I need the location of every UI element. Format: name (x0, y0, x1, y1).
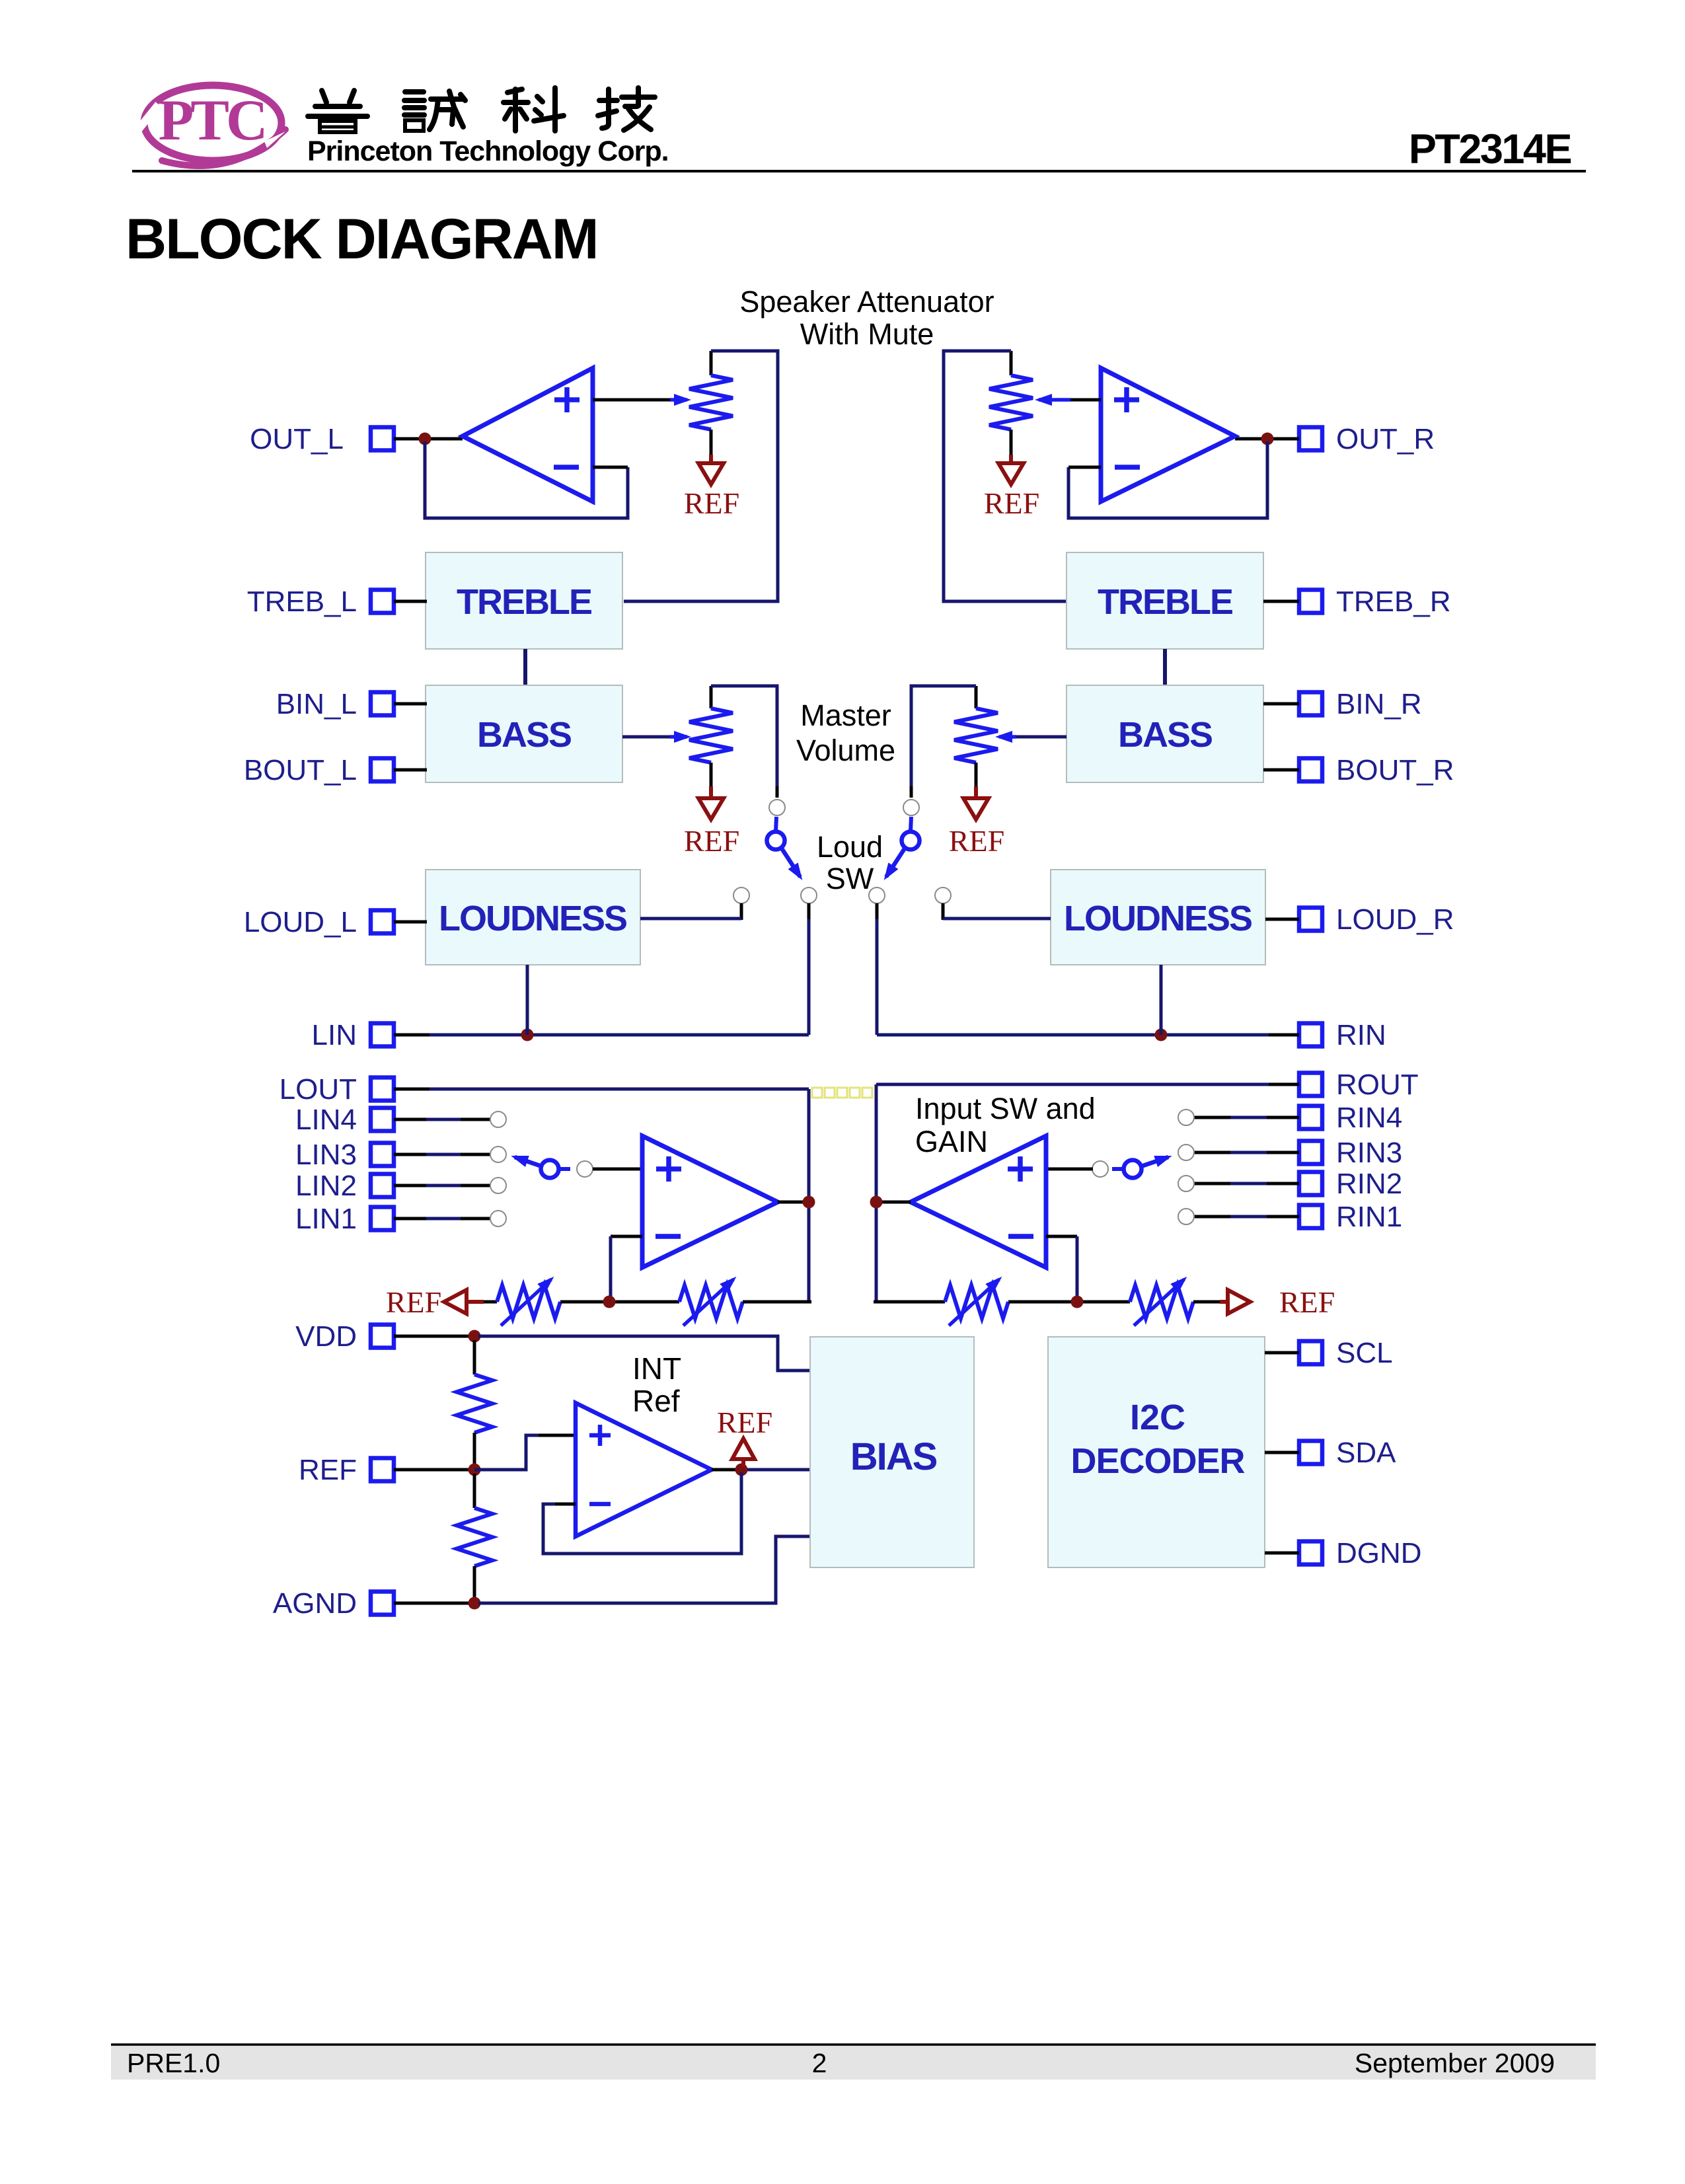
wire LOUDNESS L output to switch contact (740, 903, 743, 920)
svg-text:I2C: I2C (1130, 1398, 1185, 1437)
footer bar (111, 2045, 1596, 2080)
svg-text:REF: REF (949, 824, 1004, 858)
input selector left common contact (577, 1161, 593, 1177)
svg-text:LIN2: LIN2 (295, 1170, 357, 1202)
svg-text:REF: REF (1279, 1285, 1335, 1319)
wire LIN3 to selector contact (394, 1153, 426, 1156)
selector contact LIN3 (490, 1147, 506, 1162)
svg-text:2: 2 (812, 2048, 827, 2078)
REF symbol below P2 (1009, 455, 1013, 463)
wire R3 to feedback node (560, 1300, 679, 1304)
wire LOUD_R stub (1265, 918, 1299, 921)
svg-text:REF: REF (717, 1406, 772, 1439)
potentiometer P4 master volume right (975, 686, 978, 708)
wire RIN bus (1269, 1034, 1299, 1037)
wire U5 feedback loop (543, 1472, 741, 1554)
loud switch right pivot (911, 817, 911, 831)
wire TREB_L stub (394, 600, 427, 603)
chinese char 3 (ke) (504, 88, 564, 131)
wire op-amp U2 to OUT_R (1235, 437, 1299, 441)
svg-text:TREBLE: TREBLE (1098, 582, 1232, 622)
wire RIN4 to selector contact (1267, 1116, 1299, 1119)
variable resistor R5 (945, 1285, 1008, 1318)
wire REF node (394, 1468, 482, 1472)
svg-text:RIN4: RIN4 (1336, 1102, 1402, 1134)
resistor R7 (473, 1340, 476, 1374)
svg-text:LOUD_R: LOUD_R (1336, 903, 1454, 936)
wire OUT_L to op-amp U1 (394, 437, 463, 441)
junction REF node (468, 1464, 481, 1476)
input selector left pivot (541, 1160, 559, 1178)
input selector right common contact (1092, 1161, 1108, 1177)
svg-text:BOUT_L: BOUT_L (244, 754, 357, 786)
svg-text:LOUT: LOUT (280, 1073, 357, 1106)
op-amp U2 speaker attenuator right (1101, 368, 1235, 502)
wire TREBLE to BASS left (523, 649, 527, 685)
svg-text:RIN2: RIN2 (1336, 1168, 1402, 1200)
wire to variable resistor R3 (484, 1300, 497, 1304)
svg-text:REF: REF (386, 1285, 441, 1319)
svg-text:RIN3: RIN3 (1336, 1137, 1402, 1169)
svg-text:BOUT_R: BOUT_R (1336, 754, 1454, 786)
svg-text:BIN_R: BIN_R (1336, 688, 1422, 720)
svg-text:DGND: DGND (1336, 1537, 1422, 1569)
svg-text:With Mute: With Mute (800, 317, 934, 351)
junction AGND node (468, 1597, 481, 1610)
block LOUDNESS right (1051, 870, 1265, 965)
svg-text:OUT_R: OUT_R (1336, 423, 1435, 455)
variable resistor R4 (679, 1285, 743, 1318)
junction node OUT_R (1261, 433, 1274, 445)
svg-text:Master: Master (800, 698, 891, 732)
junction right feedback node (1071, 1296, 1084, 1308)
block BIAS (810, 1337, 974, 1567)
watermark (812, 1088, 872, 1098)
op-amp U5 INT ref (576, 1403, 712, 1536)
wire AGND rail (394, 1602, 482, 1605)
svg-text:LOUD_L: LOUD_L (244, 906, 357, 938)
junction node OUT_L (419, 433, 431, 445)
potentiometer P1 speaker left (710, 351, 713, 375)
block BASS right (1067, 685, 1263, 782)
wire SCL stub (1265, 1351, 1299, 1355)
REF symbol at U5 output (741, 1459, 745, 1467)
block TREBLE left (426, 552, 622, 649)
op-amp U4 input gain right (911, 1136, 1046, 1267)
header rule (132, 170, 1586, 172)
selector contact RIN2 (1178, 1176, 1194, 1191)
wire U2 feedback loop (1068, 441, 1267, 518)
wire SDA stub (1265, 1451, 1299, 1454)
wire LOUD_L stub (394, 921, 427, 924)
selector contact RIN4 (1178, 1110, 1194, 1125)
svg-text:VDD: VDD (295, 1320, 357, 1353)
wire U1 noninverting input to pot P1 wiper (593, 398, 670, 402)
junction VDD node (468, 1330, 481, 1343)
svg-text:BASS: BASS (477, 715, 571, 755)
wire BOUT_R stub (1263, 769, 1299, 772)
wire VDD to BIAS (478, 1336, 810, 1371)
svg-text:Input SW and: Input SW and (915, 1092, 1096, 1125)
wire switch contact RIN drop (876, 903, 879, 921)
svg-text:PTC: PTC (159, 89, 265, 153)
svg-text:RIN: RIN (1336, 1019, 1386, 1051)
junction left feedback node (603, 1296, 616, 1308)
svg-text:LIN4: LIN4 (295, 1104, 357, 1136)
wire LOUDNESS R input (1160, 965, 1163, 1035)
loud switch contact LIN (801, 887, 817, 903)
wire BASS R output to pot P4 (1016, 735, 1067, 739)
chinese char 1 (pu) (308, 91, 367, 132)
wire DGND stub (1265, 1552, 1299, 1555)
selector contact LIN2 (490, 1178, 506, 1193)
op-amp U3 input gain left (642, 1136, 778, 1267)
wire BIN_R stub (1263, 702, 1299, 706)
wire BIN_L stub (394, 702, 427, 706)
wire RIN2 to selector contact (1267, 1182, 1299, 1186)
loud switch contact LOUDNESS R (935, 887, 951, 903)
svg-text:Ref: Ref (632, 1384, 680, 1418)
block I2C DECODER (1048, 1337, 1265, 1567)
loud switch left pole contact (769, 800, 785, 815)
loud switch contact LOUDNESS L (733, 887, 749, 903)
op-amp U1 speaker attenuator left (463, 368, 593, 502)
chinese char 2 (cheng) (404, 91, 465, 131)
svg-text:TREB_R: TREB_R (1336, 585, 1451, 618)
junction RIN / LOUDNESS R input (1155, 1029, 1168, 1041)
wire ROUT to input amp output node (1269, 1083, 1299, 1086)
svg-text:LIN: LIN (312, 1019, 357, 1051)
wire U5 output to BIAS (712, 1468, 747, 1472)
input selector right arm (1141, 1157, 1168, 1166)
wire TREB_R stub (1263, 600, 1299, 603)
wire switch contact LIN drop (807, 903, 811, 921)
wire LOUDNESS R output to switch contact (942, 903, 945, 920)
PTC logo ellipse ring (144, 85, 281, 161)
wire U3 output (778, 1201, 810, 1204)
svg-text:REF: REF (684, 486, 739, 520)
block LOUDNESS left (426, 870, 640, 965)
svg-text:AGND: AGND (273, 1587, 357, 1620)
junction U4 output node (870, 1196, 883, 1209)
variable resistor R3 (497, 1285, 560, 1318)
svg-text:ROUT: ROUT (1336, 1069, 1419, 1101)
svg-text:DECODER: DECODER (1070, 1441, 1244, 1481)
input selector right pivot (1124, 1160, 1142, 1178)
potentiometer P2 speaker right (1010, 351, 1013, 375)
wire LOUDNESS L input (526, 965, 529, 1035)
variable resistor R6 (1130, 1285, 1193, 1318)
svg-text:BIAS: BIAS (850, 1435, 937, 1478)
wire LIN4 to selector contact (394, 1118, 426, 1121)
loud switch left arm (782, 848, 800, 877)
svg-text:PT2314E: PT2314E (1409, 126, 1571, 172)
svg-text:INT: INT (632, 1351, 681, 1386)
junction U3 output node (803, 1196, 815, 1209)
svg-text:Loud: Loud (817, 830, 883, 864)
svg-text:September 2009: September 2009 (1355, 2048, 1555, 2078)
wire BOUT_L stub (394, 769, 427, 772)
wire REF to U5 noninverting input (474, 1435, 539, 1470)
loud switch right arm (886, 848, 905, 877)
wire RIN1 to selector contact (1267, 1215, 1299, 1219)
svg-text:PRE1.0: PRE1.0 (127, 2048, 220, 2078)
wire P4 top to loud switch right (911, 686, 976, 786)
svg-text:LIN1: LIN1 (295, 1203, 357, 1235)
svg-text:LIN3: LIN3 (295, 1139, 357, 1171)
wire R6 to REF (1193, 1300, 1220, 1304)
wire LIN2 to selector contact (394, 1184, 426, 1187)
wire TREBLE to BASS right (1163, 649, 1167, 685)
block TREBLE right (1067, 552, 1263, 649)
block BASS left (426, 685, 622, 782)
selector contact RIN3 (1178, 1145, 1194, 1160)
wire P3 top to loud switch left (711, 686, 777, 786)
REF symbol right gain chain (1228, 1290, 1250, 1314)
svg-text:TREB_L: TREB_L (247, 585, 357, 618)
wire RIN3 to selector contact (1267, 1151, 1299, 1154)
svg-text:REF: REF (984, 486, 1039, 520)
loud switch right pole contact (903, 800, 919, 815)
svg-text:BASS: BASS (1118, 715, 1212, 755)
wire U1 feedback loop (425, 441, 628, 518)
resistor R8 (473, 1474, 476, 1508)
PTC logo swoosh (162, 130, 285, 166)
wire selector to U3 noninverting input (593, 1168, 642, 1171)
wire LIN bus (394, 1034, 430, 1037)
svg-text:BIN_L: BIN_L (276, 688, 357, 720)
wire selector to U4 noninverting input (1046, 1168, 1093, 1171)
wire U3 inverting input to feedback node (611, 1235, 642, 1238)
svg-text:SCL: SCL (1336, 1337, 1393, 1369)
svg-text:LOUDNESS: LOUDNESS (439, 899, 626, 938)
wire R5 chain from U4 output (874, 1300, 945, 1304)
selector contact RIN1 (1178, 1209, 1194, 1224)
wire R4 to U3 output node (743, 1300, 811, 1304)
wire U4 inverting input to feedback node (1046, 1235, 1077, 1238)
REF symbol below P1 (709, 455, 713, 463)
svg-text:RIN1: RIN1 (1336, 1201, 1402, 1233)
svg-text:BLOCK DIAGRAM: BLOCK DIAGRAM (126, 207, 598, 271)
input selector left arm (515, 1157, 542, 1166)
wire R5 to right feedback node (1008, 1300, 1130, 1304)
wire P2 top to TREBLE R output (944, 351, 1067, 601)
svg-text:GAIN: GAIN (915, 1125, 988, 1158)
svg-text:REF: REF (299, 1454, 357, 1486)
selector contact LIN4 (490, 1111, 506, 1127)
wire AGND to BIAS (478, 1536, 810, 1603)
svg-text:SDA: SDA (1336, 1437, 1396, 1469)
junction LIN / LOUDNESS L input (521, 1029, 534, 1041)
svg-text:Volume: Volume (796, 734, 895, 767)
wire LOUT to input amp output node (394, 1088, 430, 1091)
potentiometer P3 master volume left (710, 686, 713, 708)
selector contact LIN1 (490, 1211, 506, 1226)
svg-text:SW: SW (826, 862, 874, 895)
svg-text:REF: REF (684, 824, 739, 858)
loud switch left pivot (776, 817, 776, 831)
REF symbol below P3 (709, 786, 713, 798)
svg-text:Speaker Attenuator: Speaker Attenuator (739, 285, 994, 319)
junction U5 output node (735, 1464, 748, 1476)
wire LIN1 to selector contact (394, 1217, 426, 1221)
REF symbol below P4 (974, 786, 978, 798)
svg-text:TREBLE: TREBLE (457, 582, 591, 622)
wire BASS L output to pot P3 (622, 735, 670, 739)
wire P1 top to TREBLE L output (624, 351, 778, 601)
wire U2 noninverting input to pot P2 wiper (1070, 398, 1101, 402)
chinese char 4 (ji) (598, 88, 655, 130)
svg-text:Princeton Technology Corp.: Princeton Technology Corp. (307, 135, 669, 167)
wire VDD rail (394, 1335, 482, 1338)
wire U4 output (876, 1201, 911, 1204)
loud switch contact RIN (869, 887, 885, 903)
svg-text:OUT_L: OUT_L (250, 423, 344, 455)
svg-text:LOUDNESS: LOUDNESS (1064, 899, 1252, 938)
